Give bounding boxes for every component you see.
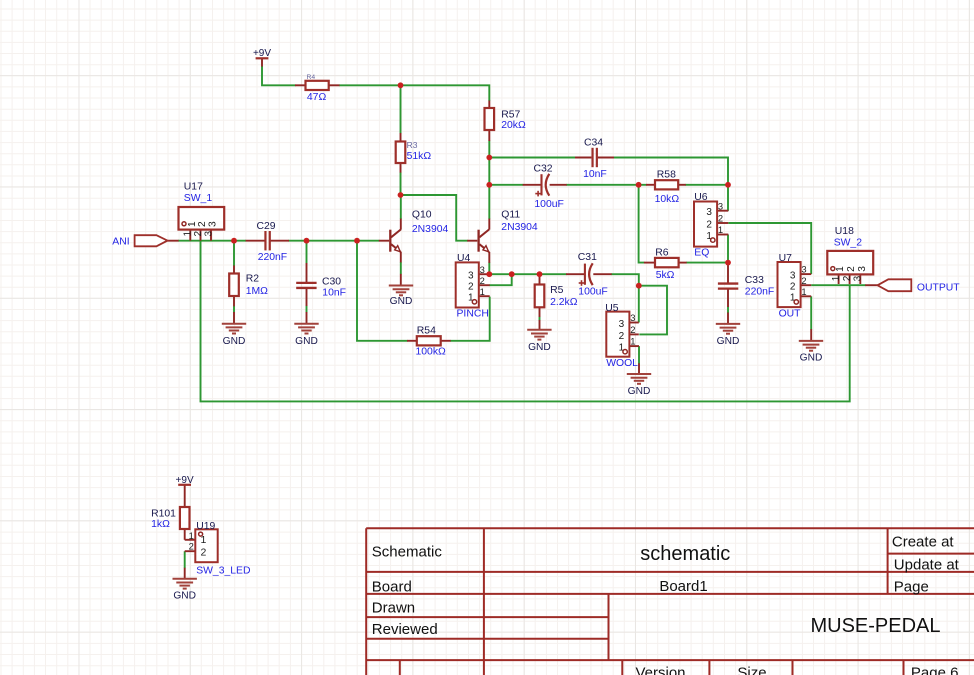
svg-text:R6: R6 — [655, 248, 669, 259]
svg-text:R101: R101 — [151, 508, 176, 519]
svg-text:2: 2 — [468, 282, 474, 293]
svg-text:Page: Page — [894, 579, 929, 596]
svg-text:U19: U19 — [196, 521, 215, 532]
svg-text:Schematic: Schematic — [372, 544, 443, 561]
svg-text:2: 2 — [189, 541, 194, 552]
svg-text:51kΩ: 51kΩ — [407, 151, 432, 162]
svg-text:Drawn: Drawn — [372, 600, 415, 617]
svg-text:2: 2 — [706, 219, 712, 230]
svg-text:3: 3 — [203, 231, 214, 237]
svg-text:OUT: OUT — [779, 308, 802, 319]
svg-text:1kΩ: 1kΩ — [151, 519, 170, 530]
svg-text:3: 3 — [208, 221, 219, 227]
svg-text:WOOL: WOOL — [606, 358, 638, 369]
svg-text:C29: C29 — [257, 221, 276, 232]
svg-text:R54: R54 — [417, 325, 436, 336]
svg-text:R57: R57 — [501, 109, 520, 120]
svg-text:schematic: schematic — [640, 543, 730, 565]
svg-text:1: 1 — [718, 224, 723, 235]
svg-text:1: 1 — [201, 534, 207, 546]
svg-text:20kΩ: 20kΩ — [501, 120, 526, 131]
svg-text:3: 3 — [853, 275, 864, 281]
svg-text:R3: R3 — [407, 140, 418, 150]
svg-text:1: 1 — [801, 286, 806, 297]
svg-text:3: 3 — [790, 271, 796, 282]
svg-text:SW_3_LED: SW_3_LED — [196, 566, 250, 577]
svg-text:Board1: Board1 — [659, 578, 707, 595]
svg-text:1: 1 — [831, 275, 842, 281]
svg-text:U6: U6 — [694, 192, 708, 203]
svg-text:U18: U18 — [835, 226, 854, 237]
svg-text:+9V: +9V — [176, 475, 194, 486]
svg-text:2: 2 — [201, 546, 207, 558]
svg-text:100kΩ: 100kΩ — [416, 347, 447, 358]
svg-text:R58: R58 — [657, 170, 676, 181]
svg-text:GND: GND — [223, 336, 246, 347]
svg-text:1: 1 — [835, 266, 846, 272]
svg-text:ANI: ANI — [112, 237, 129, 248]
svg-text:GND: GND — [528, 342, 551, 353]
svg-text:1: 1 — [630, 336, 635, 347]
svg-text:10nF: 10nF — [322, 287, 346, 298]
svg-text:EQ: EQ — [694, 248, 709, 259]
svg-text:SW_2: SW_2 — [834, 237, 863, 248]
svg-text:Q11: Q11 — [501, 209, 520, 220]
svg-text:Page 6: Page 6 — [911, 665, 959, 675]
svg-text:2: 2 — [630, 324, 635, 335]
svg-text:+9V: +9V — [253, 48, 271, 59]
svg-text:GND: GND — [717, 336, 740, 347]
svg-text:1: 1 — [480, 286, 485, 297]
svg-text:3: 3 — [468, 271, 474, 282]
svg-text:R2: R2 — [246, 274, 260, 285]
svg-text:2: 2 — [801, 275, 806, 286]
svg-text:Size: Size — [737, 665, 766, 675]
svg-text:Board: Board — [372, 579, 412, 596]
svg-text:1MΩ: 1MΩ — [246, 286, 268, 297]
svg-text:U5: U5 — [605, 303, 619, 314]
svg-text:GND: GND — [390, 296, 413, 307]
svg-text:R5: R5 — [550, 285, 564, 296]
svg-text:2: 2 — [846, 266, 857, 272]
svg-text:2N3904: 2N3904 — [501, 222, 538, 233]
svg-text:2: 2 — [842, 275, 853, 281]
svg-text:C30: C30 — [322, 277, 341, 288]
svg-text:3: 3 — [630, 312, 635, 323]
svg-text:3: 3 — [619, 319, 625, 330]
svg-text:GND: GND — [173, 591, 196, 602]
svg-text:C34: C34 — [584, 138, 603, 149]
svg-text:3: 3 — [857, 266, 868, 272]
svg-text:2: 2 — [790, 282, 796, 293]
svg-text:GND: GND — [800, 353, 823, 364]
svg-text:U17: U17 — [184, 182, 203, 193]
svg-text:Create at: Create at — [892, 534, 955, 551]
svg-text:2: 2 — [197, 221, 208, 227]
svg-text:2: 2 — [619, 331, 625, 342]
svg-text:2.2kΩ: 2.2kΩ — [550, 297, 578, 308]
svg-text:220nF: 220nF — [745, 287, 774, 298]
svg-text:C31: C31 — [578, 252, 597, 263]
svg-text:Q10: Q10 — [412, 209, 432, 220]
svg-text:3: 3 — [706, 207, 712, 218]
svg-text:PINCH: PINCH — [457, 309, 489, 320]
svg-text:OUTPUT: OUTPUT — [917, 282, 960, 293]
svg-text:2: 2 — [193, 231, 204, 237]
svg-text:C33: C33 — [745, 275, 764, 286]
svg-text:U4: U4 — [457, 253, 471, 264]
svg-text:3: 3 — [801, 264, 806, 275]
svg-text:3: 3 — [480, 264, 485, 275]
svg-text:C32: C32 — [534, 164, 553, 175]
svg-text:3: 3 — [718, 200, 723, 211]
svg-text:100uF: 100uF — [578, 287, 607, 298]
svg-text:2: 2 — [480, 275, 485, 286]
svg-text:220nF: 220nF — [258, 252, 287, 263]
svg-text:5kΩ: 5kΩ — [656, 270, 675, 281]
svg-text:SW_1: SW_1 — [184, 193, 213, 204]
svg-text:100uF: 100uF — [534, 199, 563, 210]
svg-text:MUSE-PEDAL: MUSE-PEDAL — [810, 615, 940, 637]
svg-text:GND: GND — [628, 386, 651, 397]
svg-text:2N3904: 2N3904 — [412, 224, 449, 235]
svg-text:10nF: 10nF — [583, 169, 607, 180]
svg-text:Update at: Update at — [894, 557, 960, 574]
svg-text:47Ω: 47Ω — [307, 92, 327, 103]
svg-text:GND: GND — [295, 336, 318, 347]
svg-text:10kΩ: 10kΩ — [655, 194, 680, 205]
svg-text:Reviewed: Reviewed — [372, 621, 438, 638]
svg-text:U7: U7 — [779, 253, 793, 264]
svg-text:1: 1 — [189, 530, 194, 541]
svg-text:R4: R4 — [307, 74, 316, 81]
svg-text:2: 2 — [718, 213, 723, 224]
svg-text:Version: Version — [635, 665, 685, 675]
